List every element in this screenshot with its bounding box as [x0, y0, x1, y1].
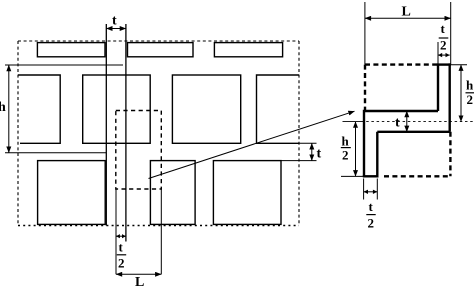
- midline dashed: [361, 121, 474, 123]
- svg-text:L: L: [402, 5, 411, 20]
- svg-text:h: h: [466, 78, 474, 93]
- dimension t (top strip width): [106, 28, 126, 30]
- L top arrow: [365, 17, 451, 19]
- vertical strip right line: [125, 24, 127, 242]
- midline solid left part: [343, 121, 362, 123]
- slot square row3 col2: [150, 161, 195, 225]
- h/2 right top extension: [450, 64, 467, 66]
- meander element: bottom cap solid: [363, 175, 379, 177]
- meander element: dashed bottom edge: [384, 175, 450, 177]
- meander element: dashed right edge: [449, 132, 451, 177]
- vertical strip left line: [105, 24, 107, 226]
- svg-text:t: t: [317, 147, 322, 162]
- unit cell dashed rectangle: [116, 111, 162, 190]
- slot square row2 col4 (clipped by right boundary): [257, 75, 300, 143]
- slot rectangle row1 col3: [214, 43, 282, 57]
- svg-text:2: 2: [118, 256, 125, 271]
- slot square row2 col2: [83, 75, 151, 143]
- slot rectangle row1 col1: [37, 43, 105, 57]
- L bottom arrow: [116, 273, 161, 275]
- dimension t (right row gap) extension bottom: [281, 160, 317, 162]
- svg-text:2: 2: [440, 38, 447, 53]
- meander element: inner right edge: [437, 65, 439, 111]
- meander element: lower-left vertical bar left edge: [363, 110, 365, 177]
- t/2 top-right arrows: [438, 54, 450, 56]
- h/2 right arrow: [460, 65, 462, 122]
- slot square row2 col1 (clipped by left boundary): [18, 75, 60, 143]
- array boundary left (dashed): [17, 41, 19, 226]
- slot square row3 col1: [38, 161, 106, 225]
- svg-text:t: t: [441, 21, 446, 36]
- dimension t (right row gap) arrow: [311, 143, 313, 160]
- svg-text:t: t: [112, 14, 117, 29]
- array boundary top (dashed): [18, 40, 299, 42]
- t/2 bottom arrows: [116, 235, 126, 237]
- meander element: dashed top edge: [365, 63, 438, 65]
- slot square row3 col3: [213, 161, 281, 225]
- lower t/2 extensions: [363, 179, 365, 200]
- slot rectangle row1 col2: [128, 43, 194, 57]
- svg-text:t: t: [119, 240, 124, 255]
- t mid arrow: [406, 111, 408, 132]
- pointer line to magnified view: [149, 111, 355, 178]
- svg-text:h: h: [342, 134, 350, 149]
- dimension t (right row gap) extension top: [299, 142, 317, 144]
- dimension h extension top: [5, 64, 123, 66]
- t/2 top-right extension: [437, 42, 439, 65]
- meander element: top cap solid: [437, 63, 451, 65]
- L top extension right: [450, 2, 452, 65]
- dimension h extension bottom: [5, 152, 107, 154]
- svg-text:2: 2: [467, 92, 474, 107]
- dimension h arrow: [8, 65, 10, 153]
- svg-text:2: 2: [368, 216, 375, 231]
- svg-text:t: t: [395, 116, 400, 131]
- h/2 left arrow: [355, 122, 357, 177]
- slot square row2 col3: [172, 75, 240, 143]
- meander element: dashed left edge: [364, 65, 366, 111]
- meander element: lower bar inner left edge: [376, 132, 378, 177]
- svg-text:h: h: [0, 100, 6, 115]
- svg-text:t: t: [369, 199, 374, 214]
- meander element: upper bar bottom edge: [364, 110, 438, 112]
- meander element: lower bar top edge: [377, 131, 449, 133]
- t/2 bottom extension left: [115, 189, 117, 274]
- h/2 left bottom extension: [341, 175, 364, 177]
- svg-text:2: 2: [342, 148, 349, 163]
- svg-text:L: L: [135, 275, 144, 286]
- array boundary bottom (dash-dot): [18, 225, 299, 227]
- L top extension left: [364, 2, 366, 65]
- array boundary right (dashed): [298, 41, 300, 226]
- L bottom extension right: [160, 189, 162, 274]
- lower t/2 arrows: [364, 191, 378, 193]
- meander element: outer right edge: [449, 63, 451, 131]
